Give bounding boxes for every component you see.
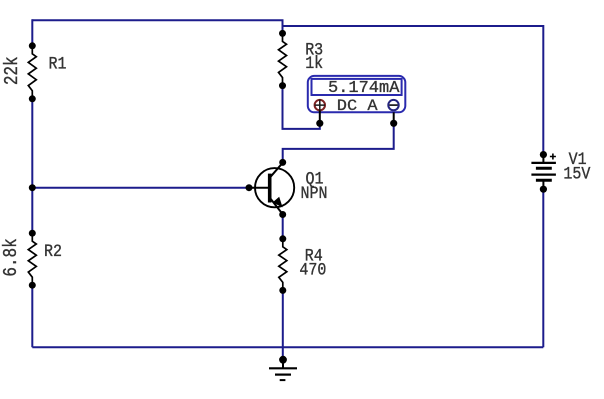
junction R4 bottom <box>279 287 286 294</box>
svg-text:5.174mA: 5.174mA <box>328 79 400 98</box>
svg-text:1k: 1k <box>305 53 323 74</box>
ammeter display window <box>312 79 402 95</box>
svg-text:15V: 15V <box>563 163 590 184</box>
wire R4 bottom to ground junction <box>282 290 284 359</box>
svg-text:22k: 22k <box>2 56 24 85</box>
ammeter left terminal pin <box>319 111 321 124</box>
junction base pin <box>246 184 253 191</box>
wire top-right rail from R3 jog to battery V1 top <box>283 26 544 155</box>
junction battery top <box>540 151 547 158</box>
ammeter U1 body <box>308 76 406 112</box>
resistor R3 <box>279 33 287 85</box>
svg-text:R1: R1 <box>49 53 67 74</box>
junction R3 bottom <box>279 82 286 89</box>
wire left rail <box>31 19 33 347</box>
junction R2 bottom <box>29 282 36 289</box>
junction ground node <box>279 356 287 364</box>
junction emitter node <box>279 211 286 218</box>
battery V1 <box>531 154 556 190</box>
svg-text:470: 470 <box>299 259 326 280</box>
junction base node left <box>29 184 36 191</box>
wire bottom rail <box>32 346 543 348</box>
svg-text:R2: R2 <box>44 241 62 262</box>
resistor R2 <box>28 233 36 285</box>
ammeter plus terminal symbol <box>315 99 325 112</box>
wire top-left rail from left rail corner to R3 jog <box>32 20 282 33</box>
wire right rail battery bottom to bottom rail <box>542 189 544 347</box>
svg-text:NPN: NPN <box>301 183 328 204</box>
ammeter minus terminal symbol <box>388 100 398 110</box>
ground <box>269 360 297 380</box>
wire ammeter right terminal to Q1 collector <box>283 123 394 162</box>
resistor R1 <box>28 46 36 99</box>
junction ammeter left terminal <box>316 120 323 127</box>
junction collector node <box>279 159 286 166</box>
junction ammeter right terminal <box>390 120 397 127</box>
transistor Q1 <box>249 163 294 215</box>
svg-text:6.8k: 6.8k <box>1 238 23 276</box>
junction R1 bottom <box>29 95 36 102</box>
ammeter right terminal pin <box>393 112 395 123</box>
wire base of Q1 <box>32 187 249 189</box>
junction R1 top <box>29 42 36 49</box>
resistor R4 <box>279 239 287 291</box>
wire Q1 emitter to R4 top <box>282 215 284 239</box>
junction R3 top <box>279 30 286 37</box>
junction R2 top <box>29 230 36 237</box>
junction battery bottom <box>540 186 547 193</box>
svg-text:DC A: DC A <box>337 98 378 115</box>
wire R3 bottom to ammeter left terminal <box>283 86 320 129</box>
junction R4 top <box>279 235 286 242</box>
